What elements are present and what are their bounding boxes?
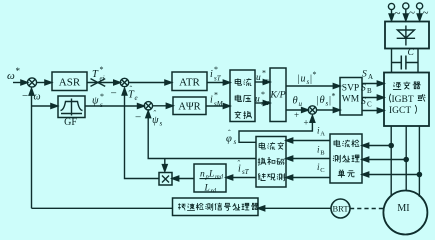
wire ATR output i*sT to converter box [207,80,230,85]
svg-text:BRT: BRT [332,204,349,214]
svg-text:sM: sM [214,100,224,108]
svg-text:*: * [214,65,218,74]
text observer box line3 lian guan ce [258,173,284,181]
label isT-hat [238,159,250,176]
svg-text:*: * [16,66,21,76]
svg-text:SVP: SVP [342,84,359,94]
block rectifier [385,22,429,49]
label T*ei [92,65,105,83]
text detection box line1 dian liu jian [334,140,359,147]
svg-text:−: − [22,90,28,102]
svg-text:B: B [320,150,325,157]
wire phase C tap to current detection unit [362,172,419,177]
svg-text:u: u [255,95,260,105]
node flux summing junction [144,102,152,110]
svg-text:ω: ω [34,92,41,103]
wire Te-hat from multiplier up into sum2 [122,88,159,178]
svg-text:C: C [320,167,324,174]
text converter box line2 dian ya [235,95,251,102]
text inverter line1 ni bian qi [393,82,421,90]
wire omega feedback up into sum1 and branch to GF [29,89,34,209]
svg-text:sM: sM [261,100,270,107]
svg-text:s: s [234,138,237,146]
AC source terminal 2 [403,3,409,21]
block GF flux function generator [58,96,85,118]
capacitor C [392,56,419,70]
wire SA to inverter [362,81,384,86]
block SVPWM [340,78,362,116]
svg-text:θ: θ [293,96,298,107]
svg-text:sT: sT [262,79,269,86]
svg-text:L: L [208,170,214,180]
label SB [361,84,372,96]
svg-text:s: s [160,120,163,128]
node BRT speed sensor circle [331,199,350,218]
wire SC to inverter [362,108,384,113]
svg-text:S: S [361,97,366,107]
label us magnitude [298,70,317,86]
svg-text:|: | [298,74,300,85]
svg-text:S: S [361,84,366,94]
svg-text:A: A [368,73,373,81]
wire DC link right [417,49,419,73]
svg-text:IGCT: IGCT [389,106,411,116]
svg-text:*: * [100,65,104,74]
label i*sT [210,65,222,83]
block current detection processing unit [330,134,362,183]
svg-text:ˆ: ˆ [228,129,231,138]
diode symbol inside rectifier [397,26,415,46]
label minus omega feedback [22,90,41,103]
svg-text:θ: θ [320,95,325,106]
svg-text:md: md [215,174,224,181]
svg-text:C: C [408,48,415,58]
wire sum1 to ASR [37,80,52,85]
text observer box line2 huan he ci [258,158,285,165]
svg-text:B: B [367,87,372,95]
label u*sM [255,90,270,107]
AC source terminal 3 [417,3,423,21]
AC source terminal 1 [388,3,394,20]
svg-text:+: + [304,118,309,128]
node junction dot phase A [389,143,393,147]
svg-text:ψ: ψ [92,96,99,107]
wire theta-u to theta sum [286,108,308,113]
block ApsiR flux regulator [173,97,206,115]
node sum1 speed summing junction [27,78,36,87]
wire theta-hat feedback from observer to theta sum [239,116,315,143]
wire SB to inverter [362,95,384,100]
svg-text:IGBT: IGBT [392,95,414,105]
wire dashed BRT to motor [350,208,384,210]
svg-text:*: * [262,69,266,78]
label phi-hat-s [226,129,237,147]
label u*sT [256,69,269,86]
label iB [317,145,325,157]
svg-text:i: i [210,95,213,106]
svg-text:*: * [313,70,317,79]
svg-text:u: u [256,73,261,83]
svg-text:ˆ: ˆ [154,109,157,118]
wire flux sum to ApsiR [153,103,173,108]
wire u*sM to K/P [255,101,270,106]
block K/P converter [270,68,286,122]
wire sum2 to ATR [129,80,172,85]
wire branch to GF input [32,104,58,109]
svg-text:ˆ: ˆ [130,85,133,94]
text detection box line2 ce chu li [333,155,360,162]
text converter box line3 bian huan [235,111,252,119]
node junction dot phase C [417,172,421,176]
svg-text:C: C [367,101,372,109]
node junction dot phase B [404,157,408,161]
svg-text:*: * [332,92,336,101]
label SC [361,97,372,109]
wire motor phase A [390,126,392,196]
wire omega* input [13,80,28,85]
label gain fraction Lrd [204,184,217,195]
svg-text:ASR: ASR [59,77,81,89]
block ATR torque regulator [172,72,207,91]
svg-text:AΨR: AΨR [178,102,200,113]
svg-text:*: * [100,92,104,101]
svg-text:s: s [100,101,103,109]
node sum2 torque summing junction [120,78,128,86]
text converter box line1 dian liu [235,78,251,85]
label SVP WM [342,84,360,105]
wire psi-hat-s distribution from observer to flux sum [146,109,256,158]
svg-text:ATR: ATR [179,77,200,89]
wire isT-hat from observer to gain block [226,175,256,180]
text speed processor zhuan su jian ce xin hao chu li qi [178,203,258,210]
svg-text:i: i [210,69,213,80]
label omega* [7,66,21,82]
svg-text:u: u [299,100,303,108]
wire motor phase B [405,126,407,191]
wire ASR to sum2 with X limiter mark [87,79,120,87]
svg-text:~: ~ [395,8,401,20]
label Te-hat [128,85,138,103]
block current transform and flux observer [256,137,286,188]
svg-text:*: * [214,91,218,100]
wire motor phase C [418,126,420,197]
svg-text:−: − [111,88,117,100]
wire phase A tap to current detection unit [362,143,391,148]
block ASR speed regulator [52,72,87,91]
motor M circle [383,191,427,235]
wire phase B tap to current detection unit [362,157,406,162]
label theta-u [293,96,303,109]
svg-text:ω: ω [7,70,15,82]
wire theta-s to SVPWM [317,108,340,113]
label iC [317,162,325,174]
block inverter IGBT/IGCT [384,73,429,127]
label psi-hat-s [152,109,163,128]
svg-text:e: e [135,94,138,102]
label psi*s [92,92,104,109]
node theta summing junction [308,106,316,114]
block speed detection signal processor [173,198,259,216]
label SA [362,70,373,82]
label iA [317,126,325,138]
svg-text:−: − [135,112,141,124]
wire iB to observer [286,156,330,161]
svg-text:n: n [200,170,205,180]
text inverter line3 IGCT paren [389,105,417,116]
wire iC to observer [286,175,330,180]
wire ApsiR output i*sM to converter box [206,104,230,109]
wire BRT to speed processor [258,206,331,211]
text detection box line3 dan yuan [338,170,355,178]
wire DC link left [391,49,393,73]
label gain fraction npLmd [200,170,224,181]
svg-text:ei: ei [100,75,105,83]
wire gain block to multiplier [172,176,194,181]
svg-text:S: S [362,70,367,80]
svg-text:|: | [317,95,319,106]
svg-text:ˆ: ˆ [238,159,241,168]
svg-text:L: L [204,184,210,194]
svg-text:GF: GF [64,117,77,128]
wire speed processor output to omega feedback line [32,207,173,209]
label i*sM [210,91,224,109]
svg-text:MI: MI [397,203,409,214]
wire GF output psi*s to flux sum [85,104,144,109]
svg-text:WM: WM [342,95,360,105]
svg-text:*: * [261,90,265,99]
svg-text:+: + [294,110,299,120]
svg-text:~: ~ [423,7,429,19]
block current-voltage converter [230,70,255,122]
wire u*sT to K/P [255,80,270,85]
block multiplier X [159,173,172,186]
svg-text:K/P: K/P [269,90,285,101]
svg-text:A: A [320,131,325,138]
text observer box line1 dian liu bian [259,142,284,149]
wire branch down into multiplier [162,159,167,172]
wire iA to observer [286,138,330,143]
label theta-s setpoint [317,92,336,108]
text inverter line2 paren IGBT huo [389,94,425,105]
svg-text:~: ~ [409,7,415,19]
block gain npLmd/Lrd [194,164,226,192]
svg-text:u: u [301,74,306,85]
wire us magnitude to SVPWM [286,84,340,89]
svg-text:sT: sT [214,75,222,83]
svg-text:rd: rd [211,188,217,195]
svg-text:sT: sT [242,168,250,176]
